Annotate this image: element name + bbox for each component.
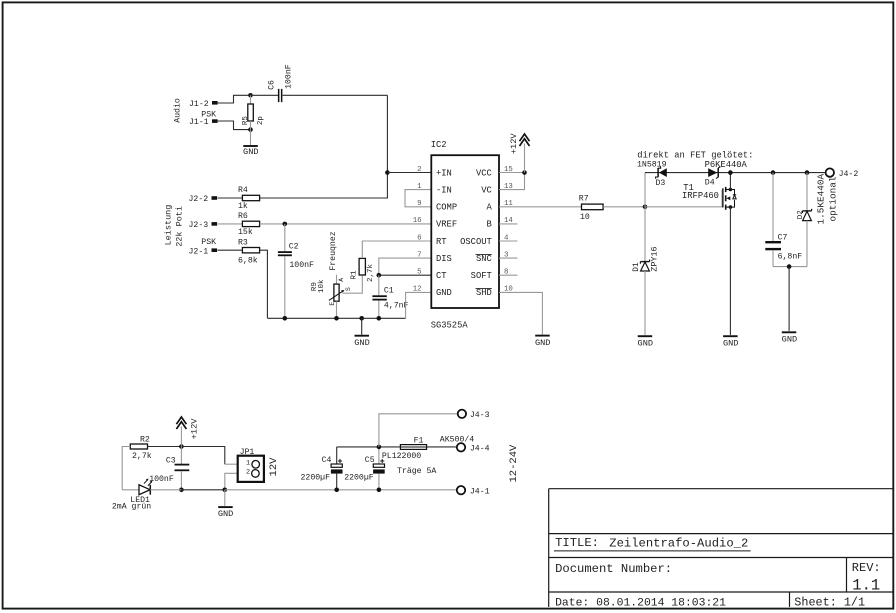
connector pin J2-3 (189, 221, 218, 230)
resistor R7 (579, 195, 603, 223)
node C5 top junction (377, 445, 382, 450)
node B junction (248, 127, 253, 132)
svg-text:REV:: REV: (852, 561, 881, 575)
wire T1 drain to top row (729, 173, 731, 190)
svg-text:GND: GND (782, 334, 797, 344)
svg-text:TITLE:: TITLE: (555, 536, 599, 550)
label direkt an FET geloetet (637, 151, 753, 161)
node R9/ground row junction (334, 316, 339, 321)
wire JP1 pin2 to ground row (225, 473, 238, 490)
svg-text:P6KE440A: P6KE440A (705, 160, 748, 170)
node C5 bottom junction (377, 488, 382, 493)
svg-text:J1-1: J1-1 (189, 118, 209, 127)
ground GND (T1 source) (723, 336, 738, 348)
zener D2 1.5KE440A (797, 173, 838, 267)
title block frame (549, 489, 894, 607)
svg-text:SNC: SNC (476, 254, 492, 264)
svg-text:GND: GND (218, 509, 233, 519)
wire snubber to ground (788, 267, 790, 331)
terminal J4-1 (457, 486, 490, 496)
ground GND (D1) (638, 336, 653, 348)
svg-text:F1: F1 (414, 437, 424, 446)
wire T1 source to ground (729, 207, 731, 335)
svg-text:4,7nF: 4,7nF (384, 301, 409, 310)
wire C7/D2 bottom row (773, 266, 807, 268)
wire to ground symbol (bottom) (224, 490, 226, 506)
svg-text:R1: R1 (351, 270, 359, 280)
svg-text:2: 2 (246, 469, 250, 477)
wire COMP pin 9 to -IN pin 1 (405, 190, 431, 207)
op-amp/PWM IC2 SG3525A box (431, 140, 499, 331)
svg-text:GND: GND (354, 338, 369, 348)
svg-text:GND: GND (638, 338, 653, 348)
svg-text:+12V: +12V (509, 133, 519, 155)
svg-text:2,7k: 2,7k (367, 264, 375, 283)
wire JP1 pin1 stub (225, 463, 238, 465)
node ground symbol tap junction (359, 316, 364, 321)
svg-text:J4-3: J4-3 (470, 411, 490, 420)
wire R6 to VREF pin 16 (260, 223, 432, 225)
pin numbers left (413, 166, 422, 294)
svg-text:10k: 10k (318, 279, 326, 293)
svg-text:J2-3: J2-3 (189, 221, 209, 230)
wire CT node to pin 5 (379, 274, 432, 276)
svg-text:100nF: 100nF (289, 261, 314, 270)
svg-text:IC2: IC2 (431, 140, 447, 150)
wire VC pin 13 to +12V node (499, 173, 525, 190)
connector pin J2-1 (189, 247, 218, 256)
svg-text:R3: R3 (238, 238, 248, 247)
ground GND (bottom) (218, 507, 233, 519)
svg-text:GND: GND (535, 338, 550, 348)
wire DIS pin 7 to CT node (379, 258, 432, 275)
svg-text:J4-1: J4-1 (470, 487, 490, 496)
ground GND (main) (354, 336, 369, 348)
svg-text:12V: 12V (268, 457, 280, 477)
pin names right (460, 168, 492, 298)
capacitor C7 (765, 173, 802, 267)
resistor R5 (242, 95, 265, 129)
resistor R4 (238, 186, 260, 211)
svg-text:Date: 08.01.2014 18:03:21: Date: 08.01.2014 18:03:21 (555, 598, 726, 610)
jumper JP1 (238, 448, 280, 482)
svg-text:1k: 1k (238, 201, 248, 211)
svg-text:OSCOUT: OSCOUT (460, 237, 492, 247)
svg-text:2,7k: 2,7k (132, 451, 152, 461)
svg-text:Träge 5A: Träge 5A (397, 467, 436, 476)
wire D1 to ground (644, 271, 646, 335)
wire J1-2 to node A (218, 95, 251, 103)
supply +12V (IC) (509, 133, 529, 173)
svg-text:C1: C1 (384, 287, 394, 296)
svg-text:C7: C7 (778, 234, 788, 243)
svg-text:E: E (329, 302, 336, 306)
wire J4-3 branch (379, 414, 458, 447)
wire VCC pin 15 to +12V node (499, 172, 525, 174)
diode D3 1N5819 (637, 160, 667, 188)
svg-text:2p: 2p (257, 116, 265, 125)
svg-text:R2: R2 (140, 435, 150, 444)
svg-text:VCC: VCC (476, 168, 492, 178)
label 12-24V (508, 444, 520, 483)
svg-text:D3: D3 (656, 179, 666, 188)
svg-text:J4-4: J4-4 (470, 444, 490, 453)
label PSK (J2) (201, 238, 216, 247)
svg-text:1: 1 (246, 460, 250, 468)
node +12V/VCC junction (522, 170, 527, 175)
ground GND (snubber) (782, 332, 797, 344)
terminal J4-3 (458, 410, 490, 420)
wire F1 to J4-4 (427, 446, 457, 448)
svg-text:J1-2: J1-2 (189, 100, 209, 109)
svg-text:ZPY16: ZPY16 (649, 246, 659, 271)
wire gate node down to D1 (644, 207, 646, 262)
LED LED1 (112, 479, 153, 512)
wire +12V node to JP1 pin 1 (181, 447, 224, 465)
svg-text:R5: R5 (242, 116, 250, 126)
svg-text:C2: C2 (289, 243, 299, 252)
pin stub 8 SOFT (499, 274, 518, 276)
supply +12V (bottom) (176, 417, 199, 447)
resistor R6 (238, 212, 260, 237)
svg-text:C6: C6 (268, 80, 277, 90)
terminal J4-4 (440, 435, 490, 454)
wire R4 to +IN node (260, 95, 388, 198)
svg-text:C5: C5 (365, 456, 375, 465)
svg-text:Zeilentrafo-Audio_2: Zeilentrafo-Audio_2 (609, 537, 748, 551)
svg-text:PL122000: PL122000 (382, 452, 421, 461)
svg-text:1N5819: 1N5819 (637, 160, 667, 169)
node C2/ground row junction (283, 316, 288, 321)
wire node A to C6 (251, 94, 279, 96)
title text (554, 536, 751, 551)
node CT junction (377, 273, 382, 278)
resistor R3 (238, 238, 260, 265)
svg-text:COMP: COMP (436, 203, 457, 213)
label Freuqnez (329, 231, 338, 270)
svg-text:100nF: 100nF (285, 64, 294, 89)
svg-text:J2-2: J2-2 (189, 195, 209, 204)
svg-text:-IN: -IN (436, 185, 452, 195)
svg-text:Leistung: Leistung (164, 205, 174, 246)
node C4 bottom junction (334, 488, 339, 493)
svg-text:2mA grün: 2mA grün (112, 503, 151, 512)
wire SHD pin 10 to ground (499, 292, 542, 334)
fuse F1 (382, 437, 436, 477)
svg-text:C4: C4 (322, 456, 332, 465)
resistor R2 (130, 435, 151, 460)
svg-text:R4: R4 (238, 186, 248, 195)
resistor R1 (351, 258, 375, 282)
node C7 tap junction (771, 170, 776, 175)
node C3 bottom junction (179, 488, 184, 493)
ground GND (audio) (243, 146, 258, 157)
wire J2-2 to R4 (218, 197, 243, 199)
svg-text:2: 2 (417, 166, 421, 174)
svg-text:VREF: VREF (436, 220, 457, 230)
svg-text:2200µF: 2200µF (344, 473, 374, 482)
svg-text:C3: C3 (166, 457, 176, 466)
capacitor C3 (149, 447, 189, 490)
svg-text:B: B (487, 220, 492, 230)
svg-text:PSK: PSK (201, 238, 216, 247)
ground GND (SHD) (535, 336, 550, 348)
svg-text:J2-1: J2-1 (189, 247, 209, 256)
wire R5 to ground (250, 130, 252, 145)
node gate junction (643, 205, 648, 210)
document number row (555, 561, 881, 595)
svg-text:10: 10 (580, 213, 590, 222)
svg-text:Freuqnez: Freuqnez (329, 231, 338, 270)
svg-text:100nF: 100nF (149, 475, 174, 484)
svg-text:7: 7 (417, 251, 421, 259)
svg-text:12-24V: 12-24V (508, 444, 520, 483)
wire R2 left down to LED (122, 447, 130, 490)
node VREF/C2 junction (283, 222, 288, 227)
wire J2-3 to R6 (218, 223, 243, 225)
node A junction (248, 93, 253, 98)
node GND/JP1 junction (223, 488, 228, 493)
svg-text:GND: GND (436, 288, 452, 298)
trimmer R9 (311, 275, 352, 319)
transistor T1 MOSFET symbol (723, 187, 736, 210)
wire R3 down to ground row (260, 250, 268, 318)
svg-text:Audio: Audio (173, 98, 183, 123)
capacitor C1 (372, 275, 408, 318)
wire tap to ground symbol (361, 318, 363, 334)
wire R7 to gate node (603, 206, 645, 208)
svg-text:5: 5 (417, 269, 421, 277)
node snubber ground junction (787, 264, 792, 269)
pin numbers right (504, 166, 513, 294)
connector pin J1-2 (189, 100, 218, 109)
node +12V bottom junction (179, 444, 184, 449)
svg-text:D2: D2 (797, 210, 805, 219)
wire D3/D4 top row (645, 172, 825, 174)
svg-text:1.1: 1.1 (852, 577, 880, 595)
svg-text:6: 6 (417, 234, 421, 242)
capacitor C6 (268, 64, 294, 102)
svg-text:R7: R7 (579, 195, 589, 204)
svg-text:A: A (487, 203, 493, 213)
node D2 tap junction (805, 170, 810, 175)
node C1/ground row junction (377, 316, 382, 321)
wire gate node to T1 gate (645, 190, 722, 207)
svg-text:9: 9 (417, 200, 421, 208)
svg-text:direkt an FET gelötet:: direkt an FET gelötet: (637, 151, 753, 161)
svg-text:R6: R6 (238, 212, 248, 221)
svg-text:6,8nF: 6,8nF (778, 253, 803, 262)
capacitor C4 (301, 447, 343, 490)
svg-text:+12V: +12V (189, 418, 199, 440)
pin stub 14 B (499, 223, 518, 225)
svg-text:6,8k: 6,8k (238, 255, 258, 265)
pin names left (436, 168, 457, 298)
svg-text:15k: 15k (238, 227, 253, 237)
terminal J4-2 (826, 168, 859, 179)
svg-text:1.5KE440A: 1.5KE440A (816, 174, 827, 225)
svg-text:+IN: +IN (436, 168, 452, 178)
pin stub 4 OSCOUT (499, 240, 518, 242)
zener D1 ZPY16 (633, 246, 659, 271)
svg-text:12: 12 (413, 286, 422, 294)
node +IN junction (385, 170, 390, 175)
svg-text:A: A (338, 278, 345, 282)
label PSK (J1) (201, 111, 216, 120)
connector pin J1-1 (189, 118, 218, 127)
wire R1 to RT pin 6 (362, 241, 431, 258)
svg-text:SOFT: SOFT (471, 271, 492, 281)
svg-text:2200µF: 2200µF (301, 473, 331, 482)
svg-text:J4-2: J4-2 (839, 170, 859, 179)
svg-text:JP1: JP1 (240, 448, 255, 457)
connector J2 label Leistung 22k Poti (164, 205, 185, 247)
svg-text:VC: VC (481, 185, 492, 195)
svg-text:D1: D1 (633, 262, 641, 272)
svg-text:22k Poti: 22k Poti (174, 206, 184, 247)
wire ground row (267, 317, 405, 319)
wire J2-1 to R3 (218, 249, 243, 251)
connector J1 label Audio (173, 98, 183, 123)
node drain junction (728, 170, 733, 175)
svg-text:CT: CT (436, 271, 447, 281)
svg-text:1: 1 (417, 183, 422, 191)
svg-text:SHD: SHD (476, 288, 492, 298)
wire R2 to +12V node (148, 446, 182, 448)
wire F1 row (337, 446, 401, 448)
pin stub 3 SNC (499, 257, 518, 259)
wire gate node up to D3 row (644, 173, 646, 207)
connector pin J2-2 (189, 195, 218, 204)
svg-text:SG3525A: SG3525A (431, 320, 469, 330)
wire +IN node to pin 2 (387, 172, 431, 174)
wire LED to ground row (150, 489, 225, 491)
wire ground row right (225, 489, 457, 491)
svg-text:S: S (345, 287, 352, 291)
capacitor C2 (278, 224, 314, 318)
diode D4 P6KE440A (705, 160, 748, 187)
wire A pin 11 to R7 (499, 206, 582, 208)
date row (555, 596, 865, 610)
wire R9 wiper to R1 (343, 275, 363, 293)
svg-text:IRFP460: IRFP460 (682, 191, 719, 201)
svg-text:optional: optional (827, 176, 838, 221)
svg-text:Document Number:: Document Number: (555, 562, 672, 576)
svg-text:D4: D4 (705, 179, 715, 188)
transistor T1 IRFP460 labels (682, 183, 719, 201)
svg-text:DIS: DIS (436, 254, 452, 264)
capacitor C5 (344, 447, 385, 490)
svg-text:GND: GND (723, 338, 738, 348)
wire ground row to GND pin 12 (406, 292, 432, 318)
wire J1-1 to node B (218, 121, 251, 130)
svg-text:AK500/4: AK500/4 (440, 435, 474, 445)
svg-text:Sheet: 1/1: Sheet: 1/1 (794, 596, 865, 610)
wire C6 to +IN riser (283, 94, 388, 96)
svg-text:RT: RT (436, 237, 447, 247)
svg-text:GND: GND (243, 147, 258, 157)
svg-text:16: 16 (413, 217, 422, 225)
